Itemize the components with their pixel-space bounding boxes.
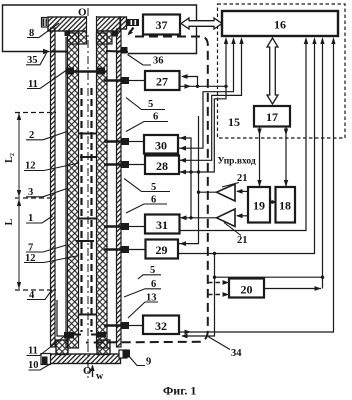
svg-text:36: 36 [153,56,164,67]
wire feedback loop top-left [3,5,197,54]
svg-text:Упр.вход: Упр.вход [218,157,256,167]
wire U21b out to 31 [181,217,217,219]
svg-text:34: 34 [231,348,242,359]
box 16 [222,11,338,36]
sensor bolt to 30 [104,140,122,142]
svg-text:17: 17 [266,110,278,124]
wire into 30 [179,138,192,218]
wire 17 to 18 [285,127,287,188]
svg-text:5: 5 [148,99,153,110]
svg-text:O: O [83,365,92,377]
box 28 [145,156,179,175]
flange right ear [120,17,127,29]
svg-text:6: 6 [153,112,158,123]
svg-text:1: 1 [28,213,33,224]
wire 31 out [180,40,307,231]
box 18 [276,187,296,223]
interior electrode stub [79,218,97,220]
wire 29 out [178,40,315,254]
svg-text:29: 29 [156,243,168,257]
bottom electrode bar [74,334,81,336]
bus wire into 16 c [180,40,242,160]
dimension extension dashed middle [15,197,56,199]
node bolt 36 [121,47,128,54]
electrode block right [97,68,105,75]
bus wire into 16 b [179,40,234,148]
wire 36 stub through wall [106,50,128,53]
sensor bolt to 27 [104,79,122,81]
wire sensor to box 28 [129,164,145,166]
tube inner wall right [97,33,108,348]
double arrow 16-17 [267,38,278,104]
interior electrode stub [80,156,96,158]
wire 29 branch down to 32 [183,254,215,337]
wire 32 out [180,40,334,332]
dimension extension dashed bottom [15,289,56,291]
upper bushing left [68,31,87,44]
bottom bolt 9 [123,350,131,358]
wire bottom left [57,300,64,336]
box 31 [145,215,180,234]
svg-text:15: 15 [228,115,240,129]
electrode block 11 left [66,68,74,75]
box 29 [146,240,179,259]
wire into 29 [179,116,199,244]
svg-text:L₂: L₂ [4,153,15,163]
bottom axis arrow W [92,366,94,377]
inner rod dashed edge left 12 [80,88,82,332]
double arrow 37-16 [181,18,222,29]
flange bolt right [112,31,118,37]
svg-text:32: 32 [155,319,167,333]
box 27 [145,71,180,90]
svg-text:10: 10 [28,360,39,371]
dashed stubs into 20 [208,282,227,284]
svg-text:21: 21 [237,235,248,246]
connector block at flange to 37 [127,19,140,26]
dimension line L2 [18,113,20,197]
svg-text:w: w [96,371,104,382]
interior electrode stub [79,133,97,135]
sensor bolt to 29 [104,248,122,250]
wire sensor to box 27 [129,80,145,82]
bottom flange block left [56,340,68,355]
electrode bar with arrow [72,70,100,72]
dashed box 15 [218,4,346,138]
interior electrode stub [79,314,97,316]
sensor bolt to 31 [104,225,122,227]
svg-text:Фиг. 1: Фиг. 1 [163,384,196,398]
svg-text:12: 12 [25,161,36,172]
bottom electrode block right [97,332,106,338]
svg-text:O: O [78,7,87,19]
wire sensor to box 31 [129,226,145,228]
svg-text:27: 27 [156,75,168,89]
wire branch to 16 bus [215,276,323,278]
wire 27 feedback hook [184,77,198,87]
bottom electrode block 11 left [64,332,74,339]
amplifier U21b [217,209,236,227]
wire 19 to U21b [237,215,248,217]
box 17 [254,106,290,127]
wire sensor to box 29 [129,249,146,251]
svg-text:L: L [4,218,15,225]
svg-text:16: 16 [274,18,286,32]
tube outer wall left [51,28,56,347]
top flange 8 plate [48,17,121,31]
tube inner wall left 2 [68,33,79,348]
wire 17 to 19 [259,127,261,188]
junction dots [189,170,192,173]
wire sensor to box 30 [129,141,144,143]
box 30 [144,135,178,154]
dimension extension dashed top [15,112,56,114]
svg-text:11: 11 [28,346,38,357]
box 20 [229,279,264,298]
upper bushing right [97,31,113,44]
svg-text:28: 28 [156,159,168,173]
arrowhead 35 [43,49,51,54]
flange bolt left [65,31,71,36]
inner rod dashed edge right 12 [90,88,92,332]
axis centerline O-O [87,8,89,378]
bus wire into 16 a [180,40,227,172]
flange left ear [42,18,49,28]
interior electrode stub [76,240,94,242]
svg-text:9: 9 [146,357,151,368]
wire 27 out to bus a [180,85,227,87]
box labels [155,18,291,334]
wire 20 out / bus to 16 [322,40,324,289]
leader labels [24,23,248,371]
box 32 [143,316,179,335]
svg-text:18: 18 [279,199,291,213]
tube outer wall right [117,29,122,347]
tube inner wall left line 7 [65,37,67,348]
box 37 [143,15,180,35]
bottom flange right ear [119,350,127,358]
bottom flange 9 plate [48,354,121,364]
wire 35 stub through wall [50,51,67,53]
wire 19 to U21a [237,190,248,192]
dashed enclosure 34 [86,37,208,343]
amplifier U21a [217,184,236,201]
svg-text:37: 37 [156,18,168,32]
box 19 [248,187,270,223]
bottom flange block right [97,340,110,355]
svg-text:30: 30 [155,139,167,153]
wire 19 to 18 [270,201,276,203]
arrow mark below connector [129,28,134,34]
wire sensor to box 32 [129,325,143,327]
wire U21a out [199,191,217,193]
sensor bolt to 28 [104,163,122,165]
svg-text:19: 19 [253,199,265,213]
flange bore gap [87,16,97,32]
bottom flange left ear [41,354,51,365]
sensor bolt 13 to 32 [104,324,122,326]
svg-text:31: 31 [156,218,168,232]
svg-text:20: 20 [241,283,253,297]
dimension line L [18,199,20,289]
